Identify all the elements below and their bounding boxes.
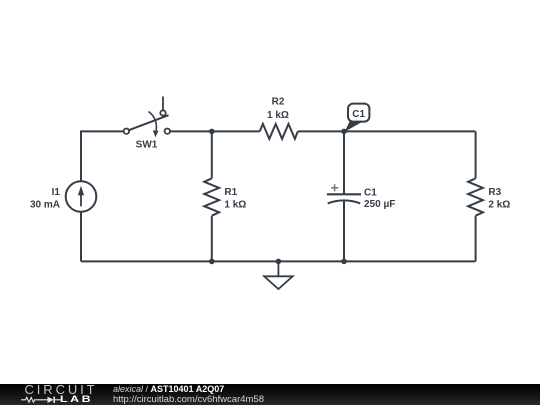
current source I1 (30, 181, 96, 212)
svg-text:R3: R3 (488, 187, 501, 198)
CircuitLab logo CIRCUIT (25, 382, 98, 397)
svg-text:R1: R1 (224, 187, 237, 198)
svg-text:30 mA: 30 mA (30, 199, 60, 210)
svg-text:R2: R2 (272, 96, 285, 107)
wire C1 branch upper (343, 131, 345, 194)
wire bottom rail (81, 260, 476, 262)
CircuitLab logo LAB (60, 394, 93, 405)
wire C1 lower lead (343, 200, 345, 261)
node label flag C1 (345, 104, 370, 132)
svg-text:250 µF: 250 µF (364, 199, 395, 210)
junction dot bottom C1 (341, 259, 347, 265)
junction dot bottom R1 (209, 259, 215, 265)
junction dot top C1 (341, 129, 347, 135)
CircuitLab logo symbol (21, 394, 65, 404)
footer bar (0, 384, 540, 405)
resistor R1 (204, 178, 246, 215)
wire R3 branch upper (475, 131, 477, 178)
wire I1 lower lead (80, 212, 82, 262)
wire from R2 to R3 top corner (298, 130, 476, 132)
capacitor C1 (327, 184, 395, 210)
svg-text:1 kΩ: 1 kΩ (224, 200, 246, 211)
svg-text:C1: C1 (352, 109, 365, 120)
svg-text:2 kΩ: 2 kΩ (488, 200, 510, 211)
wire R1 lower lead (211, 216, 213, 262)
ground (264, 261, 293, 289)
resistor R3 (468, 178, 510, 215)
svg-text:I1: I1 (52, 187, 61, 198)
wire top-left from I1 to SW1 (81, 131, 124, 181)
svg-text:SW1: SW1 (136, 140, 158, 151)
wire R3 lower lead (475, 216, 477, 262)
attribution line 1 (113, 384, 224, 394)
svg-text:1 kΩ: 1 kΩ (267, 110, 289, 121)
junction dot bottom ground (276, 259, 282, 265)
attribution line 2 (113, 394, 264, 405)
svg-text:C1: C1 (364, 187, 377, 198)
wire from SW1 right terminal to R2 (170, 130, 260, 132)
switch SW1 (124, 97, 170, 151)
junction dot top R1 (209, 129, 215, 135)
resistor R2 (260, 96, 298, 138)
wire R1 branch upper (211, 131, 213, 178)
